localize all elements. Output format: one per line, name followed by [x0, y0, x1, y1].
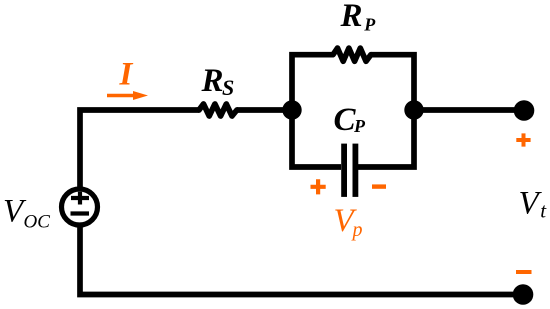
resistor RP	[333, 48, 371, 61]
svg-text:P: P	[363, 15, 376, 35]
svg-text:OC: OC	[24, 212, 51, 233]
wire: lower branch left (junction down, right to capacitor)	[292, 110, 341, 167]
output plus sign (orange)	[516, 133, 530, 146]
wire: left rail bottom (source bottom to bottom rail to bottom terminal)	[80, 226, 523, 295]
capacitor minus sign (orange)	[372, 184, 386, 188]
voltage source minus symbol	[71, 211, 90, 215]
node: left junction dot	[282, 100, 301, 119]
node: top output terminal dot	[514, 100, 535, 121]
wire: left rail top (source top to top-left corner, then right to Rs)	[80, 110, 199, 188]
node: right junction dot	[404, 100, 423, 119]
wire: top rail right to right vertical down to right junction	[371, 55, 414, 110]
capacitor CP right plate	[353, 144, 359, 197]
voltage source plus symbol	[71, 192, 89, 205]
capacitor CP left plate	[341, 144, 347, 197]
resistor RS	[199, 104, 237, 116]
svg-text:S: S	[222, 75, 234, 100]
svg-text:I: I	[119, 56, 134, 92]
output minus sign (orange)	[516, 270, 532, 274]
node: bottom output terminal dot	[513, 284, 534, 305]
voltage source VOC circle	[62, 189, 98, 225]
wire: Rs to left junction	[237, 107, 292, 113]
svg-text:R: R	[201, 63, 224, 99]
current arrow	[107, 94, 134, 97]
svg-text:R: R	[340, 0, 363, 34]
wire: right junction to top output terminal	[414, 107, 524, 113]
wire: parallel-loop left vertical (junction up to top rail)	[292, 55, 333, 110]
svg-text:P: P	[353, 116, 366, 136]
wire: lower branch right (capacitor right, up to right junction)	[358, 110, 414, 167]
capacitor plus sign (orange)	[311, 179, 326, 194]
svg-text:p: p	[351, 219, 363, 241]
